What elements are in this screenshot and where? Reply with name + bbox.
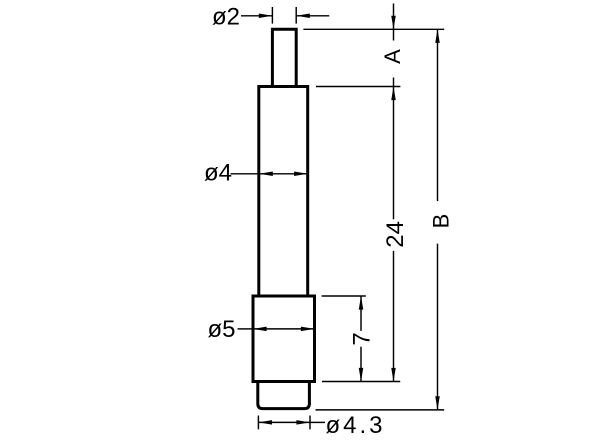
svg-text:B: B xyxy=(428,214,453,229)
svg-text:ø4: ø4 xyxy=(204,160,232,187)
svg-text:7: 7 xyxy=(349,332,376,345)
svg-text:A: A xyxy=(380,49,405,64)
svg-text:ø2: ø2 xyxy=(212,3,240,30)
svg-text:24: 24 xyxy=(382,221,409,248)
svg-text:ø4.3: ø4.3 xyxy=(326,412,386,439)
svg-text:ø5: ø5 xyxy=(208,316,236,343)
